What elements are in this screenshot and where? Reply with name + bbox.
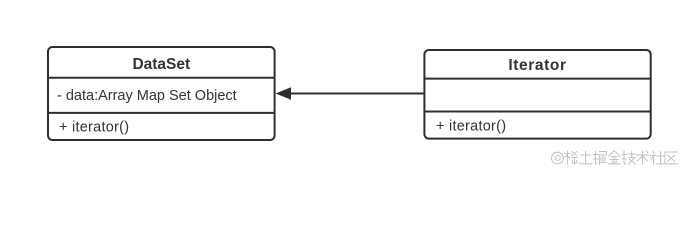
svg-text:Iterator: Iterator (508, 57, 566, 74)
glyph 金 (608, 151, 620, 164)
svg-text:+ iterator(): + iterator() (436, 118, 506, 134)
glyph 区 (665, 152, 678, 164)
glyph 稀 (565, 151, 578, 164)
divider DataSet title/attributes (48, 77, 275, 79)
arrowhead pointing to DataSet (276, 87, 291, 100)
label DataSet method (59, 120, 129, 136)
label Iterator method (436, 118, 506, 134)
class box Iterator (424, 50, 650, 139)
divider DataSet attributes/methods (48, 112, 275, 114)
wire arrow shaft Iterator to DataSet (290, 93, 424, 95)
glyph @ (552, 152, 564, 164)
class box DataSet (48, 47, 275, 140)
label DataSet attribute (57, 88, 237, 104)
glyph 掘 (593, 151, 606, 164)
divider Iterator attributes/methods (424, 111, 650, 113)
label DataSet title (132, 56, 190, 73)
svg-text:+ iterator(): + iterator() (59, 120, 129, 136)
glyph 术 (636, 151, 649, 164)
watermark @稀土掘金技术社区 (552, 151, 678, 165)
svg-text:- data:Array Map Set Object: - data:Array Map Set Object (57, 88, 237, 104)
glyph 社 (651, 151, 664, 164)
svg-text:DataSet: DataSet (132, 56, 190, 73)
divider Iterator title/attributes (424, 78, 650, 80)
label Iterator title (508, 57, 566, 74)
glyph 土 (579, 151, 592, 164)
glyph 技 (622, 151, 635, 164)
